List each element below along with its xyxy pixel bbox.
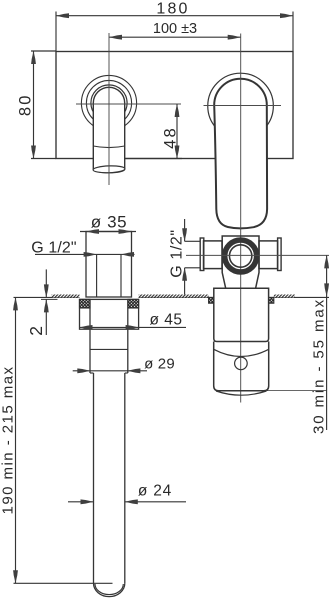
valve left arm bbox=[204, 241, 223, 269]
spout tube joint line bbox=[93, 146, 124, 148]
ø24 spout tube right edge bbox=[124, 373, 126, 583]
dimension 2 lower segment bbox=[45, 299, 47, 335]
extension line plate left top bbox=[55, 12, 57, 52]
dimension 48 line bbox=[176, 104, 178, 159]
30-55 up arrow bbox=[324, 255, 329, 268]
G 1/2 right dim upper arrow bbox=[182, 228, 187, 241]
spout mouth ellipse bbox=[93, 165, 125, 173]
valve box right wall hatch block bbox=[269, 297, 274, 303]
svg-text:48: 48 bbox=[162, 126, 180, 149]
ø45 left arrow bbox=[80, 325, 93, 330]
dimension 80 line bbox=[33, 51, 35, 159]
valve inner ring bbox=[229, 245, 251, 267]
sleeve top sag arc bbox=[214, 349, 269, 356]
spout pipe above wall (side view) bbox=[86, 232, 132, 298]
ø29 pipe joint line bbox=[90, 348, 128, 350]
cartridge sleeve bbox=[214, 342, 269, 391]
ø29 pipe left edge bbox=[89, 299, 91, 373]
G 1/2 right dim lower arrow bbox=[182, 268, 187, 281]
G 1/2 right dim upper segment bbox=[184, 219, 186, 241]
valve box left wall hatch block bbox=[209, 297, 214, 303]
svg-text:G 1/2": G 1/2" bbox=[169, 229, 186, 277]
handle / valve vertical centerline bbox=[240, 34, 242, 403]
dimension ø35 line bbox=[80, 231, 136, 233]
dimension 80 bottom arrow bbox=[31, 146, 36, 159]
valve thick ring bbox=[225, 240, 257, 272]
G 1/2 right dim lower segment bbox=[184, 268, 186, 298]
dimension 2 upper segment bbox=[45, 269, 47, 297]
spout tube bottom cap outer bbox=[94, 583, 125, 596]
extension line sleeve bottom bbox=[267, 390, 327, 392]
ø29 right arrow bbox=[127, 368, 140, 373]
dimension ø24 left segment bbox=[68, 501, 94, 503]
190min top arrow bbox=[13, 297, 18, 310]
dimension 80 top arrow bbox=[31, 51, 36, 64]
wall line left of spout flange bbox=[14, 296, 80, 298]
wall hatch ticks left of flange bbox=[52, 295, 80, 298]
svg-text:ø 29: ø 29 bbox=[144, 356, 175, 373]
cartridge housing box bbox=[214, 288, 269, 341]
dimension 30-55 line bbox=[326, 255, 328, 430]
svg-text:G 1/2": G 1/2" bbox=[31, 240, 76, 257]
ø24 spout tube left edge bbox=[93, 373, 95, 583]
dimension 180 right arrow bbox=[280, 13, 293, 18]
spout pipe thread line left bbox=[96, 254, 98, 297]
flange right section hatch bbox=[128, 299, 139, 308]
sleeve screw circle bbox=[235, 357, 248, 370]
spout bend ring bbox=[91, 85, 127, 121]
step shoulder left bbox=[90, 372, 94, 374]
ø45 right arrow bbox=[126, 325, 139, 330]
dimension ø45 line bbox=[80, 326, 187, 328]
valve left arm end cap bbox=[200, 238, 204, 271]
extension line bottom edge to left for 80 bbox=[31, 158, 56, 160]
G 1/2 right ext top bbox=[185, 240, 200, 242]
spout flange (side view) bbox=[80, 299, 139, 329]
wall hatch ticks between views bbox=[139, 295, 209, 298]
G 1/2 right ext bottom bbox=[185, 267, 200, 269]
ø24 right arrow bbox=[125, 499, 138, 504]
spout escutcheon outer circle bbox=[81, 75, 136, 130]
wall line between views bbox=[139, 296, 209, 298]
handle escutcheon circle bbox=[208, 73, 274, 139]
ø29 pipe right edge bbox=[127, 299, 129, 373]
extension line spout tip bbox=[14, 582, 113, 584]
dimension 100 right arrow bbox=[228, 35, 241, 40]
dimension ø24 right segment bbox=[125, 501, 186, 503]
svg-text:2: 2 bbox=[26, 325, 46, 336]
spout tube bottom cap inner bbox=[95, 584, 123, 595]
dimension ø35 left arrow bbox=[86, 229, 99, 234]
dimension 48 top arrow bbox=[175, 104, 180, 117]
dimension 48 bottom arrow bbox=[175, 146, 180, 159]
svg-text:190 min - 215 max: 190 min - 215 max bbox=[0, 366, 16, 515]
ø24 left arrow bbox=[81, 499, 94, 504]
step shoulder right bbox=[125, 372, 128, 374]
sleeve bottom sag arc bbox=[216, 391, 267, 395]
valve central block bbox=[222, 236, 259, 288]
spout tube silhouette (front view) bbox=[93, 87, 124, 172]
30-55 down arrow bbox=[324, 283, 329, 296]
dimension 100±3 line bbox=[109, 36, 241, 38]
handle horizontal centerline bbox=[204, 105, 282, 107]
flange left section hatch bbox=[80, 299, 91, 308]
svg-text:100 ±3: 100 ±3 bbox=[153, 21, 197, 37]
dimension 180 line bbox=[56, 15, 293, 17]
dimension 180 left arrow bbox=[56, 13, 69, 18]
valve horizontal centerline bbox=[186, 254, 329, 256]
extension line 48 bottom bbox=[125, 158, 182, 160]
handle lever silhouette bbox=[214, 79, 267, 229]
dimension 2 up arrow bbox=[44, 299, 49, 312]
svg-text:ø 45: ø 45 bbox=[149, 312, 182, 329]
dimension 100 left arrow bbox=[109, 35, 122, 40]
spout pipe thread line right bbox=[120, 254, 122, 297]
spout vertical centerline bbox=[108, 33, 110, 185]
G 1/2 left arrow bbox=[84, 252, 97, 257]
wall line right of valve bbox=[274, 296, 329, 298]
svg-text:30 min - 55 max: 30 min - 55 max bbox=[311, 298, 328, 434]
valve right arm end cap bbox=[278, 238, 282, 271]
wall hatch ticks right of valve bbox=[274, 295, 295, 298]
dimension G 1/2 left line bbox=[35, 253, 135, 255]
dimension ø35 right arrow bbox=[119, 229, 132, 234]
spout horizontal centerline bbox=[76, 103, 181, 105]
dimension 2 down arrow bbox=[44, 284, 49, 297]
dimension 190min line bbox=[15, 297, 17, 583]
extension line top edge to left for 80 bbox=[31, 50, 56, 52]
dimension ø29 line bbox=[73, 370, 147, 372]
svg-text:ø 35: ø 35 bbox=[91, 213, 127, 232]
svg-text:ø 24: ø 24 bbox=[138, 482, 172, 499]
spout escutcheon inner circle bbox=[86, 80, 131, 125]
190min bottom arrow bbox=[13, 570, 18, 583]
svg-text:80: 80 bbox=[17, 93, 35, 116]
extension stub flange top at 2-dim bbox=[41, 298, 58, 300]
svg-text:180: 180 bbox=[156, 0, 189, 17]
G 1/2 right arrow bbox=[121, 252, 134, 257]
ø29 left arrow bbox=[77, 368, 90, 373]
valve right arm bbox=[259, 241, 278, 269]
extension line plate right top bbox=[292, 12, 294, 52]
wall plate rectangle (front view) bbox=[56, 52, 293, 159]
